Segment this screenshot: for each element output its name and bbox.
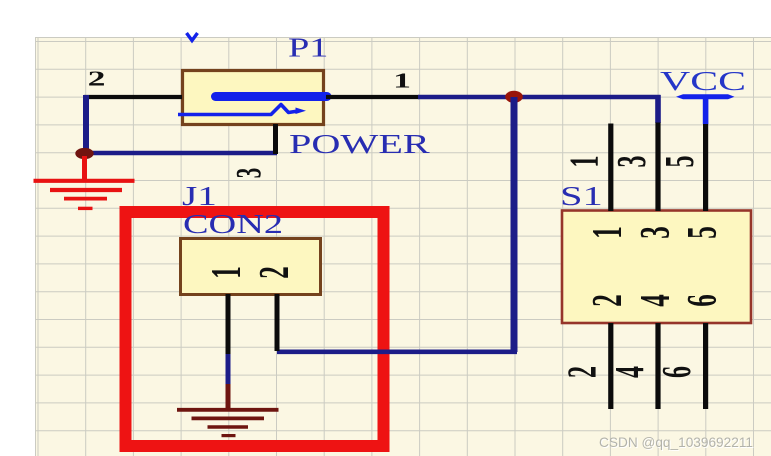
wire segment on J1 pin 1 [226, 354, 231, 385]
power ground symbol (red) [34, 156, 135, 208]
svg-text:2: 2 [560, 366, 605, 378]
svg-text:4: 4 [607, 366, 652, 378]
wire from VCC net down to J1 [511, 97, 518, 352]
pin 1 of J1 [226, 294, 231, 355]
power-symbol tip above P1 [187, 33, 198, 41]
switch S1 body [562, 211, 751, 324]
svg-text:CON2: CON2 [183, 209, 283, 239]
svg-text:2: 2 [88, 68, 106, 91]
pin 3 of S1 [655, 123, 660, 212]
pin 6 of S1 [703, 323, 708, 409]
pin 2 of S1 [608, 323, 613, 409]
J1 ground symbol (dark maroon) [177, 410, 279, 436]
highlight box (red annotation rectangle) [126, 212, 384, 446]
P1 barrel pin bar [216, 92, 328, 101]
wire VCC net horizontal [418, 95, 661, 99]
svg-text:5: 5 [678, 226, 726, 239]
pin 1 of P1 (right) [326, 95, 419, 99]
svg-text:4: 4 [631, 294, 679, 307]
wire to J1 ground [226, 384, 231, 409]
junction dot at ground net [75, 148, 93, 159]
connector J1 CON2 body [181, 239, 321, 295]
wire across to J1 pin 2 [277, 349, 517, 354]
pin 3 of P1 (bottom) [273, 124, 278, 154]
svg-text:VCC: VCC [660, 66, 746, 96]
svg-text:3: 3 [230, 168, 269, 178]
svg-text:CSDN @qq_1039692211: CSDN @qq_1039692211 [599, 434, 753, 450]
wire elbow VCC net to S1 pin3 [655, 95, 661, 123]
pin 2 of J1 [275, 294, 280, 351]
svg-text:POWER: POWER [289, 129, 430, 159]
VCC stem [703, 96, 709, 124]
wire elbow down-left to ground [83, 95, 89, 153]
svg-text:3: 3 [631, 226, 679, 239]
P1 sleeve contact lever [178, 105, 298, 115]
pin 4 of S1 [655, 323, 660, 409]
svg-text:6: 6 [654, 366, 699, 378]
svg-text:1: 1 [202, 266, 250, 279]
svg-text:1: 1 [562, 156, 607, 168]
svg-text:2: 2 [250, 266, 298, 279]
svg-text:1: 1 [393, 70, 411, 93]
svg-text:3: 3 [609, 156, 654, 168]
svg-text:1: 1 [583, 226, 631, 239]
watermark [599, 434, 754, 451]
svg-text:P1: P1 [288, 33, 328, 63]
svg-text:5: 5 [657, 156, 702, 168]
svg-text:2: 2 [583, 294, 631, 307]
svg-text:J1: J1 [182, 182, 217, 212]
pin 5 of S1 [703, 124, 708, 211]
svg-text:S1: S1 [560, 181, 603, 211]
connector P1 body [183, 71, 324, 125]
junction dot on VCC net [505, 91, 523, 103]
pin 1 of S1 [608, 124, 613, 212]
wire bottom of P1 to ground net [84, 151, 277, 155]
svg-text:6: 6 [678, 294, 726, 307]
pin 2 of P1 (left) [84, 95, 182, 99]
VCC power bar symbol [676, 94, 735, 99]
